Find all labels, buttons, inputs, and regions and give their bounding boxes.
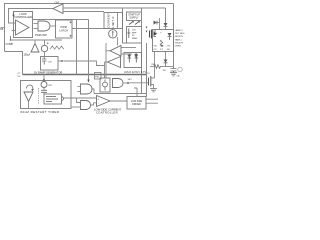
svg-text:5V: 5V xyxy=(132,35,135,37)
wire comp out down xyxy=(10,36,12,40)
wire latch out xyxy=(72,28,108,30)
wire G1 out xyxy=(50,25,56,27)
reference mark xyxy=(134,53,137,59)
block one shot xyxy=(44,94,62,104)
pin S mark xyxy=(70,21,72,23)
wire x159 xyxy=(159,18,161,30)
wire G1 in2 xyxy=(34,28,39,30)
svg-text:SUPPLY: SUPPLY xyxy=(129,17,139,20)
wire U1 input- xyxy=(12,30,16,32)
wire long vertical x88 xyxy=(88,20,90,81)
svg-text:UVLO 12.5V / 8.7V: UVLO 12.5V / 8.7V xyxy=(124,70,146,74)
wire T4 out xyxy=(110,100,127,102)
svg-text:SET: SET xyxy=(128,79,133,81)
wire drain up xyxy=(154,52,156,79)
sawtooth waveform xyxy=(50,46,64,49)
zener Z1 xyxy=(128,54,130,63)
svg-text:CONTROLLER: CONTROLLER xyxy=(14,15,32,19)
buffer up B1 xyxy=(31,44,39,53)
transistor Q2 xyxy=(150,30,152,39)
wire G2 in2 xyxy=(78,91,81,93)
wire oneshot out xyxy=(64,97,97,99)
zener Z2 xyxy=(135,54,137,63)
svg-text:LATCH: LATCH xyxy=(60,28,68,32)
and gate G4 xyxy=(81,101,91,110)
svg-text:CONTROLLER: CONTROLLER xyxy=(96,111,118,115)
wire buffer input lower xyxy=(63,11,104,13)
block uvlo zener xyxy=(124,53,142,68)
wire U1 input+ xyxy=(12,22,16,24)
op-amp U1 xyxy=(16,20,30,35)
wire buffer input upper xyxy=(63,7,166,9)
arrow chevron 1 xyxy=(129,22,133,25)
arrow x88 down xyxy=(87,80,89,83)
wire I1 to comp xyxy=(117,37,119,46)
block pwm latch xyxy=(56,20,73,38)
wire A1 out xyxy=(106,50,110,52)
wire bootstrap xyxy=(150,66,154,68)
svg-text:OUT RES: OUT RES xyxy=(175,33,185,35)
wire A2 out xyxy=(105,61,108,63)
svg-text:1.5V: 1.5V xyxy=(48,61,53,63)
wire A1 in2 xyxy=(121,53,132,55)
wire G1 in1 xyxy=(34,23,39,25)
arrow chevron 2 xyxy=(135,22,139,25)
svg-text:150µA: 150µA xyxy=(24,54,31,57)
comparator down T5 xyxy=(24,92,33,102)
lamp circle xyxy=(178,67,182,71)
wire driver out xyxy=(146,99,158,103)
current source I3 xyxy=(41,82,47,88)
block delay xyxy=(100,78,110,92)
svg-text:CS: CS xyxy=(147,73,150,75)
svg-text:CRES: CRES xyxy=(175,46,182,48)
svg-text:BIAS: BIAS xyxy=(132,37,138,40)
svg-text:+: + xyxy=(98,98,100,101)
block restart timer xyxy=(21,81,72,109)
and gate G2 xyxy=(81,84,93,94)
svg-text:REF: REF xyxy=(132,32,137,34)
resistor R1 xyxy=(154,65,163,69)
wire top bus xyxy=(5,4,174,52)
arrow input down xyxy=(13,12,15,15)
oneshot bump xyxy=(62,97,64,101)
wire G4 out xyxy=(91,103,97,105)
op-amp U2 buffer xyxy=(53,4,63,14)
arrow into timer xyxy=(43,75,45,80)
svg-text:PWM: PWM xyxy=(61,25,67,29)
svg-text:HO: HO xyxy=(160,46,164,48)
wire vertical x104 xyxy=(104,62,106,78)
pin R mark xyxy=(70,35,72,37)
svg-text:CB: CB xyxy=(177,76,180,78)
wire G4 in2 xyxy=(71,106,81,108)
svg-text:VB: VB xyxy=(154,46,157,48)
svg-text:60HZ RESTART TIMER: 60HZ RESTART TIMER xyxy=(21,110,60,114)
wire left step down xyxy=(5,52,23,75)
diode D3 xyxy=(168,33,172,37)
arrow x146 marks xyxy=(146,27,148,29)
capacitor C6 xyxy=(41,90,47,94)
svg-text:CURRENT: CURRENT xyxy=(107,13,111,28)
wire FB stub xyxy=(1,27,5,29)
wire gate drive high xyxy=(130,82,149,84)
current source I1 xyxy=(109,30,117,38)
wire G2 out xyxy=(92,89,94,94)
wire vertical x146 xyxy=(146,43,148,97)
wire G3 out arrow xyxy=(123,82,128,84)
block regulator xyxy=(127,27,142,44)
wire osc out xyxy=(64,61,105,66)
svg-text:VBUS R: VBUS R xyxy=(175,42,184,44)
comparator A2 xyxy=(108,57,121,68)
wire feedback left xyxy=(9,9,54,24)
capacitor CT xyxy=(42,57,47,65)
svg-text:LOW SIDE: LOW SIDE xyxy=(131,101,143,103)
svg-text:TANK L: TANK L xyxy=(175,38,183,41)
diode in regulator xyxy=(128,29,130,39)
svg-text:5V RAMP GENERATOR: 5V RAMP GENERATOR xyxy=(34,70,62,74)
svg-text:+: + xyxy=(160,31,162,34)
dashed link xyxy=(38,88,40,104)
block loop controller xyxy=(14,12,33,38)
ground gnd1 xyxy=(150,89,157,92)
wire ramp horizontal xyxy=(11,39,63,41)
wire branch to G4 xyxy=(77,98,81,103)
svg-text:CP: CP xyxy=(154,49,158,51)
diode D2 xyxy=(164,23,168,27)
block low side driver xyxy=(127,97,146,110)
svg-text:PWM CMP: PWM CMP xyxy=(35,34,47,37)
wire vcc rail right xyxy=(173,4,175,69)
svg-text:15V: 15V xyxy=(132,30,136,32)
wire A1 in1 xyxy=(121,47,136,49)
wire long vertical x141 xyxy=(141,8,143,94)
hook arrow xyxy=(26,85,32,90)
svg-text:TSD: TSD xyxy=(95,76,100,78)
mosfet M1 xyxy=(148,78,150,86)
diode D5 xyxy=(165,52,167,60)
svg-text:5V: 5V xyxy=(18,76,21,78)
diode D1 top xyxy=(154,21,158,25)
wire driver feed xyxy=(134,88,137,97)
svg-text:CM: CM xyxy=(55,0,60,4)
svg-text:SD: SD xyxy=(167,49,170,51)
wire vertical x76 xyxy=(76,20,78,75)
ground gnd2 xyxy=(170,73,177,76)
svg-text:VS: VS xyxy=(167,46,170,48)
svg-text:DB: DB xyxy=(163,70,166,72)
block hv section xyxy=(153,30,174,52)
and gate G3 xyxy=(113,79,124,88)
mark plus i2 xyxy=(47,42,49,44)
wire drop x122 xyxy=(123,8,127,43)
block startup supply xyxy=(127,12,142,21)
svg-text:COMP: COMP xyxy=(6,42,14,46)
op-amp T4 driver xyxy=(97,96,111,107)
node COMP dot xyxy=(10,39,12,41)
arrow osc out xyxy=(58,60,62,62)
wire vertical x106 xyxy=(105,43,107,78)
resistor R2 xyxy=(160,40,162,47)
wire mid horizontal bus xyxy=(23,74,147,76)
block multiplier vertical xyxy=(104,13,123,29)
svg-text:DRIVER: DRIVER xyxy=(132,104,141,106)
comparator A1 xyxy=(110,46,121,57)
svg-text:DT: DT xyxy=(160,49,164,51)
wire bottom bus xyxy=(94,93,147,95)
wire into B1 xyxy=(34,40,36,44)
svg-text:LAMP C: LAMP C xyxy=(175,29,184,32)
svg-text:FB: FB xyxy=(0,28,3,31)
svg-text:HB RTN: HB RTN xyxy=(175,36,184,38)
wire bootstrap 2 xyxy=(163,66,174,68)
and gate G1 xyxy=(38,21,50,31)
svg-text:LIMIT R: LIMIT R xyxy=(111,16,115,28)
current source I2 xyxy=(41,45,47,51)
svg-text:IRT: IRT xyxy=(49,85,53,87)
block tsd xyxy=(95,73,102,80)
block ct comparator xyxy=(41,57,59,71)
wire G2 in1 xyxy=(78,86,81,88)
svg-text:CT: CT xyxy=(18,73,22,75)
wire latch top long xyxy=(33,19,89,21)
capacitor C4 xyxy=(171,69,177,73)
